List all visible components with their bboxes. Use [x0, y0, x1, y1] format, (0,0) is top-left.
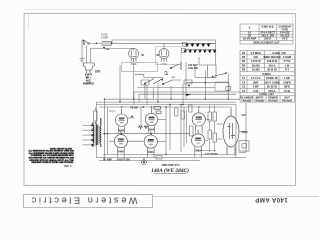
- svg-text:1 W: 1 W: [285, 63, 290, 67]
- svg-text:349A: 349A: [148, 151, 154, 154]
- svg-text:P 750: P 750: [284, 59, 291, 63]
- svg-text:100-V COND: 100-V COND: [264, 80, 279, 84]
- svg-text:349A: 349A: [149, 129, 155, 132]
- svg-text:R1: R1: [242, 51, 246, 55]
- svg-text:2 OHM: 2 OHM: [283, 55, 291, 59]
- wire right loop: [245, 103, 247, 153]
- capacitor bank row 1: [186, 43, 214, 46]
- wire box left edge: [95, 102, 97, 157]
- wire bottom bus2: [99, 159, 200, 161]
- resistor R12: [93, 111, 97, 121]
- rectifier tube V1: [129, 48, 139, 62]
- title rule line: [153, 195, 319, 197]
- svg-text:WIRE WOUND: WIRE WOUND: [263, 55, 281, 59]
- svg-text:26-W 80: 26-W 80: [267, 68, 277, 72]
- svg-text:1 MF: 1 MF: [284, 76, 290, 80]
- wire grid links: [109, 110, 115, 112]
- svg-text:TRANSF: TRANSF: [282, 98, 293, 102]
- svg-text:TRANSF: TRANSF: [241, 98, 252, 102]
- svg-text:2 AMP: 2 AMP: [101, 36, 108, 39]
- amplifier tube V3: [115, 109, 127, 131]
- svg-text:CARB. ½W: CARB. ½W: [272, 51, 286, 55]
- label box battery: [188, 64, 199, 70]
- plug label 110V: [83, 72, 94, 85]
- svg-text:CHG SW: CHG SW: [188, 67, 199, 70]
- wire top second: [112, 39, 215, 41]
- svg-text:C4: C4: [242, 89, 246, 93]
- svg-text:C2: C2: [242, 80, 246, 84]
- svg-text:205-D: 205-D: [264, 37, 271, 41]
- amplifier tube V4: [145, 108, 157, 130]
- output tube V9: [223, 108, 239, 155]
- resistor R19: [156, 155, 162, 159]
- svg-text:R4: R4: [242, 63, 246, 67]
- resistor block b: [182, 48, 186, 52]
- svg-text:0.5 MEG: 0.5 MEG: [251, 51, 261, 55]
- heater box: [122, 62, 158, 71]
- amplifier tube V5: [114, 131, 127, 153]
- resistor R21: [181, 111, 185, 119]
- svg-text:205D: 205D: [119, 118, 125, 120]
- svg-text:140A AMP: 140A AMP: [255, 196, 288, 202]
- driver tube V8: [191, 130, 204, 151]
- resistor R13: [138, 126, 148, 129]
- svg-text:140A (WE 284C): 140A (WE 284C): [151, 167, 189, 174]
- connector J1: [239, 141, 249, 152]
- svg-text:4,670 W: 4,670 W: [251, 59, 261, 63]
- wire bus4: [99, 106, 232, 108]
- svg-text:205D: 205D: [149, 118, 155, 120]
- resistor R22: [189, 105, 193, 112]
- wire bus corners: [134, 84, 153, 105]
- resistor R23: [154, 106, 161, 109]
- resistor R15: [208, 112, 212, 121]
- svg-text:COND. LIST: COND. LIST: [259, 92, 274, 96]
- arrow node b: [156, 54, 159, 56]
- fuse F1: [102, 41, 111, 45]
- svg-text:C1: C1: [242, 76, 246, 80]
- driver tube V7: [192, 109, 205, 130]
- label S3: [165, 72, 176, 80]
- svg-text:R3: R3: [242, 59, 246, 63]
- svg-text:KOND. W.: KOND. W.: [266, 76, 278, 80]
- svg-text:TRANSF: TRANSF: [268, 98, 279, 102]
- svg-text:618-B W: 618-B W: [267, 59, 278, 63]
- svg-text:TO AMP: TO AMP: [103, 158, 112, 161]
- svg-text:205D: 205D: [148, 140, 154, 142]
- svg-text:TR 285: TR 285: [130, 107, 138, 109]
- table: tube replacement list: [240, 24, 293, 44]
- switch S5: [144, 78, 154, 84]
- svg-text:AMPLIFIER SCH: AMPLIFIER SCH: [162, 164, 180, 167]
- svg-text:0.25: 0.25: [253, 89, 259, 93]
- svg-text:C3: C3: [242, 85, 246, 89]
- svg-text:205D: 205D: [118, 139, 124, 141]
- wire plug stems: [86, 45, 88, 62]
- capacitor bank row 2: [184, 50, 216, 53]
- switch S6: [162, 80, 172, 85]
- svg-text:TUBE W.E.: TUBE W.E.: [261, 25, 275, 29]
- svg-text:600W: 600W: [241, 132, 248, 134]
- resistor R14: [189, 126, 193, 136]
- svg-text:V: V: [249, 26, 251, 30]
- svg-text:115V: 115V: [95, 70, 101, 73]
- svg-text:10,400: 10,400: [252, 68, 260, 72]
- switch S3: [170, 62, 181, 70]
- resistor R16: [213, 112, 217, 121]
- svg-text:OUT TRANS: OUT TRANS: [205, 153, 218, 156]
- svg-text:FIG. 1: FIG. 1: [64, 165, 72, 168]
- wire bus3: [97, 103, 236, 105]
- resistor R8: [141, 80, 149, 85]
- switch S2: [207, 65, 226, 77]
- svg-text:READINGS TAKEN AT RATED LINE V: READINGS TAKEN AT RATED LINE VOLTAGE.: [31, 161, 73, 164]
- resistor R18: [213, 133, 217, 142]
- faint outer frame ghost: [24, 9, 296, 30]
- svg-text:205D: 205D: [196, 118, 202, 120]
- input terminal arrows: [82, 124, 94, 146]
- lamp DS1: [142, 157, 147, 164]
- junction dots: [96, 42, 229, 155]
- svg-text:310A: 310A: [195, 149, 201, 152]
- svg-text:1.5A: 1.5A: [105, 48, 110, 51]
- border frame: [24, 13, 296, 185]
- relay box K1: [215, 82, 229, 91]
- wire left drop: [81, 40, 83, 58]
- svg-text:TRANSF: TRANSF: [254, 98, 265, 102]
- rectifier tube V2: [159, 48, 169, 62]
- svg-text:MFD: MFD: [284, 85, 290, 89]
- wire left chassis verticals: [103, 99, 105, 160]
- title box: [23, 194, 152, 207]
- resistor R17: [208, 130, 212, 139]
- wire lower mid horizontal: [103, 153, 236, 155]
- wire tube pin drops: [118, 131, 124, 133]
- input transformer T1: [93, 118, 101, 147]
- wire bus1: [104, 98, 240, 100]
- wire switch2 drops: [204, 71, 206, 99]
- switch S4: [153, 78, 163, 84]
- shield box around V2: [156, 46, 182, 64]
- svg-text:Western Electric: Western Electric: [29, 195, 137, 205]
- power switch S1: [83, 40, 90, 44]
- arrow node a: [141, 54, 144, 56]
- wire tube2 anode: [163, 43, 165, 48]
- wire S4 drop: [185, 62, 187, 99]
- wire drops to bus: [119, 65, 121, 102]
- svg-text:205D: 205D: [195, 139, 201, 141]
- svg-text:4 MF: 4 MF: [253, 85, 259, 89]
- wire rectifier bus right: [215, 40, 217, 65]
- wire bus0b: [134, 91, 240, 93]
- svg-text:2 MFD: 2 MFD: [283, 80, 291, 84]
- wire chassis right vertical: [235, 105, 237, 158]
- junction dot fuse: [103, 47, 105, 49]
- wire bus2: [97, 101, 236, 103]
- arrow node c: [186, 94, 191, 96]
- arrow node e: [130, 115, 134, 118]
- wire mains top: [82, 40, 102, 43]
- svg-text:SUPPLY: SUPPLY: [83, 81, 94, 85]
- table: parts list: [240, 51, 295, 103]
- svg-text:200: 200: [254, 55, 259, 59]
- wire bus0c: [139, 93, 236, 95]
- resistor R6: [226, 86, 231, 90]
- svg-text:TUBES: TUBES: [262, 72, 271, 76]
- resistor R11: [184, 80, 192, 84]
- ground GND1: [80, 58, 85, 61]
- svg-text:R5: R5: [242, 68, 246, 72]
- resistor block a: [183, 42, 187, 46]
- svg-text:VT-2: VT-2: [282, 37, 288, 41]
- plug P1: [83, 63, 94, 73]
- svg-text:10-W: 10-W: [284, 89, 291, 93]
- svg-text:274A: 274A: [131, 63, 137, 66]
- svg-text:1.0 74-C: 1.0 74-C: [251, 76, 261, 80]
- resistor R24: [156, 111, 161, 114]
- svg-text:V3-V6 AMP: V3-V6 AMP: [243, 37, 257, 41]
- svg-text:REPLACEMENT LIST: REPLACEMENT LIST: [253, 40, 279, 44]
- wire oval cathode row: [196, 150, 216, 152]
- svg-text:349A: 349A: [118, 150, 124, 153]
- note text block: [28, 147, 74, 164]
- wire bottom bus1: [96, 156, 246, 158]
- svg-text:B BATT SW: B BATT SW: [117, 158, 130, 161]
- svg-text:OUT: OUT: [241, 115, 246, 117]
- svg-text:349A: 349A: [119, 129, 125, 132]
- wire filament return: [91, 47, 134, 49]
- wire bus0a: [138, 86, 216, 88]
- svg-text:2MF: 2MF: [253, 80, 259, 84]
- wire col between tubes: [140, 107, 142, 126]
- svg-text:85-32 W: 85-32 W: [267, 85, 277, 89]
- svg-text:P-7: P-7: [285, 68, 290, 72]
- svg-text:R2: R2: [242, 55, 246, 59]
- amplifier tube V6: [144, 131, 157, 153]
- svg-text:30,000: 30,000: [252, 63, 260, 67]
- wire mid horizontal row: [103, 133, 190, 135]
- svg-text:416-A: 416-A: [268, 63, 275, 67]
- junction dot d: [188, 85, 190, 87]
- wire input bus: [95, 122, 97, 147]
- resistor R20: [174, 108, 178, 116]
